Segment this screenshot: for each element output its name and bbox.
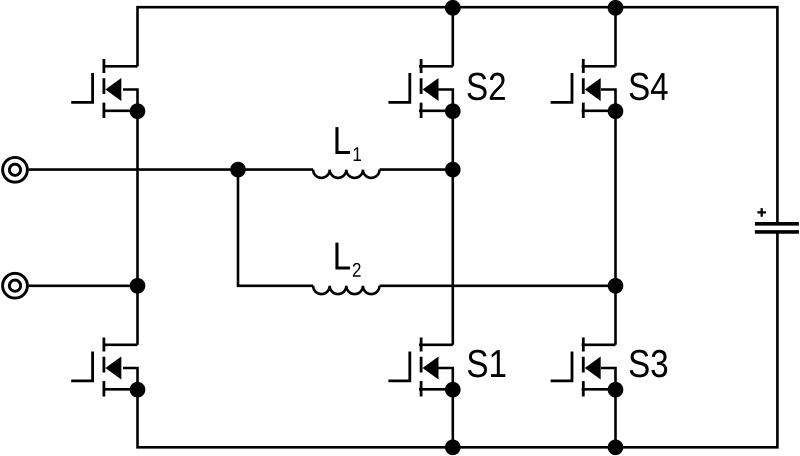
node: top rail / S4 leg junction [608, 0, 624, 16]
node: top rail / S2 leg junction [445, 0, 461, 16]
wire: top rail with left and right corner drops [138, 7, 778, 222]
label L1 [335, 127, 361, 161]
label S2 [468, 73, 505, 101]
capacitor C (output) plates [755, 224, 799, 232]
wire: bottom rail with left and right corner rises [138, 232, 778, 447]
label S1 [468, 350, 505, 378]
transistor lower-left (slow leg low side) [71, 338, 145, 398]
transistor S1 [388, 338, 460, 398]
node: bottom rail / S1 leg junction [445, 440, 461, 456]
inductor L1 [313, 170, 379, 178]
capacitor polarity plus sign [757, 208, 766, 217]
wire: leg S4/S3 top segment [614, 7, 617, 66]
label L2 [335, 243, 360, 277]
node: lower input / left leg junction [130, 278, 146, 294]
wire: upper input line to L1 [29, 168, 313, 171]
input terminal lower [3, 273, 28, 298]
transistor upper-left (slow leg high side) [71, 59, 145, 119]
node: bottom rail / S3 leg junction [608, 440, 624, 456]
wire: L1 output to S2/S1 midpoint [380, 168, 453, 171]
input terminal upper [3, 157, 28, 182]
wire: L2 output to S4/S3 midpoint [380, 284, 616, 287]
node: L1 / S2-S1 midpoint junction [445, 162, 461, 178]
node: upper input / L2 branch junction [230, 162, 246, 178]
wire: lower input line to left leg [29, 284, 138, 287]
wire: leg S2/S1 middle segment [451, 111, 454, 345]
wire: branch from upper node down to L2 [238, 170, 313, 286]
inductor L2 [313, 286, 379, 294]
transistor S2 [388, 59, 460, 119]
node: L2 / S4-S3 midpoint junction [608, 278, 624, 294]
wire: leg S2/S1 top segment [451, 7, 454, 66]
label S4 [630, 73, 668, 101]
label S3 [630, 350, 668, 378]
wire: leg S4/S3 bottom segment [614, 390, 617, 448]
transistor S3 [551, 338, 624, 398]
wire: leg S4/S3 middle segment [614, 111, 617, 345]
wire: left leg middle segment [136, 111, 139, 345]
wire: leg S2/S1 bottom segment [451, 390, 454, 448]
transistor S4 [551, 59, 624, 119]
